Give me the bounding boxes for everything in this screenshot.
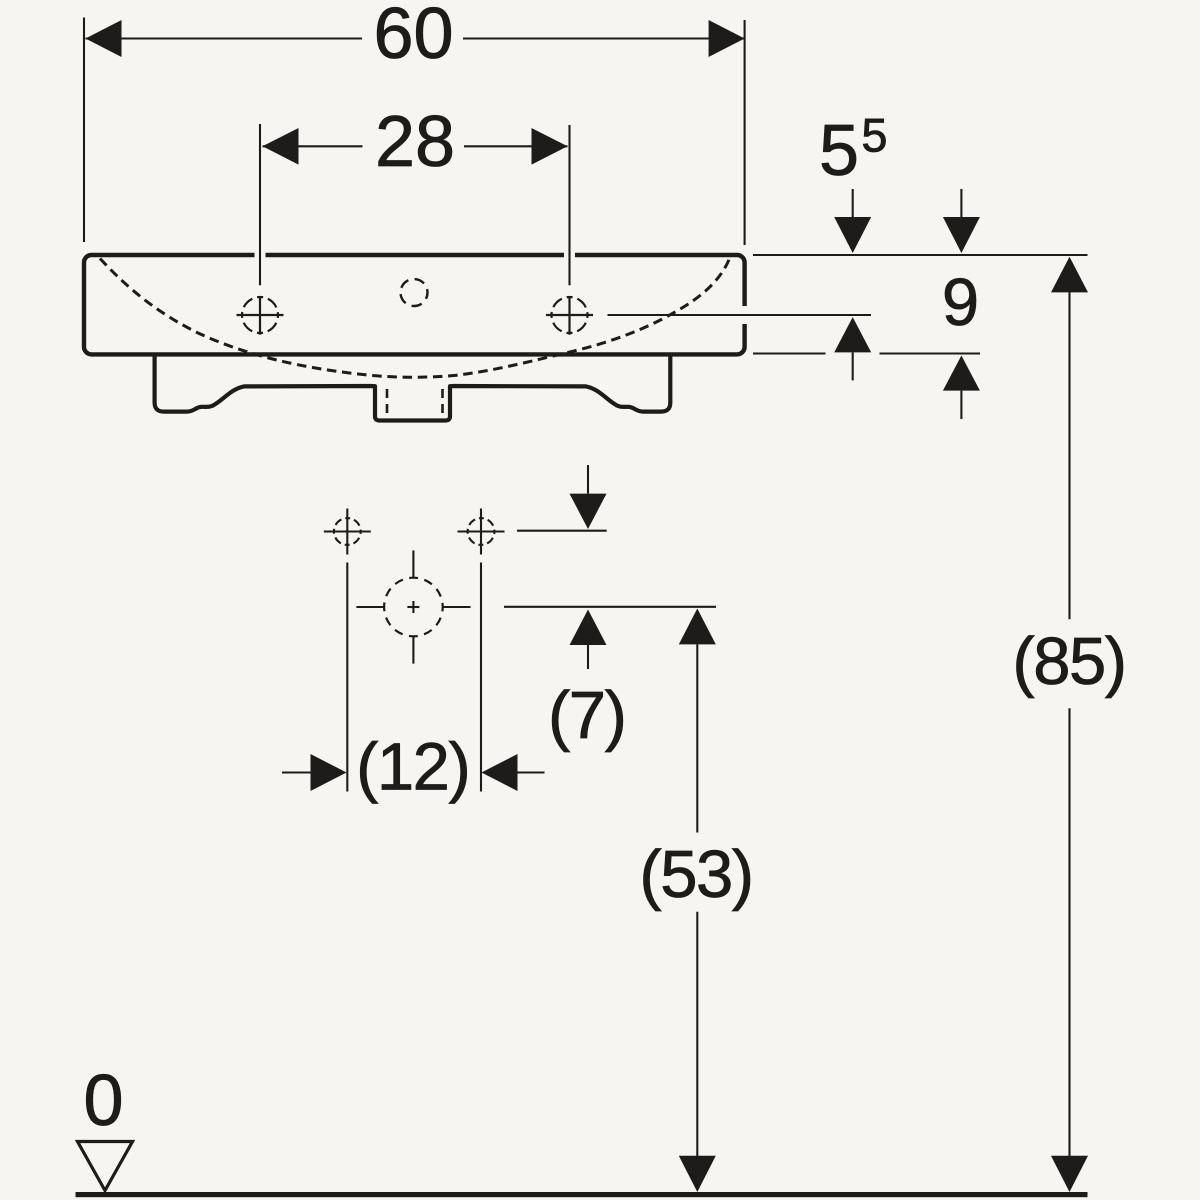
- svg-text:(85): (85): [1012, 624, 1125, 699]
- datum triangle (level 0): [78, 1142, 133, 1191]
- svg-text:(7): (7): [548, 678, 625, 753]
- svg-text:5: 5: [861, 109, 887, 162]
- svg-text:(53): (53): [639, 837, 752, 912]
- fixing hole right: dashed circle: [468, 518, 495, 545]
- dim 5.5: down arrowhead: [834, 217, 871, 253]
- dim 12: left-pointing arrowhead: [482, 754, 518, 791]
- svg-text:(12): (12): [356, 730, 469, 805]
- dim 53: vertical line lower part: [696, 912, 698, 1156]
- drain symbol: dashed circle: [384, 578, 443, 637]
- reference line fixing holes (7): [517, 530, 607, 532]
- fixing hole left: centerlines: [324, 530, 371, 532]
- washbasin body outline: [84, 255, 745, 354]
- reference line tap hole axis (5.5): [608, 314, 872, 316]
- hidden bowl contour (dashed): [100, 259, 730, 378]
- dim 53: vertical line upper part: [696, 644, 698, 832]
- dim 5.5: up arrowhead: [834, 317, 871, 352]
- dim 9: down arrowhead: [943, 217, 980, 253]
- dim 7: upper arrow stub: [587, 465, 589, 494]
- dim 5.5: upper arrow stub: [852, 189, 854, 218]
- floor line: [76, 1192, 1088, 1197]
- dim 85: bottom arrowhead: [1051, 1156, 1088, 1192]
- fixing hole right: centerlines: [458, 530, 505, 532]
- fixing hole left: extension line: [346, 563, 348, 792]
- dim 5.5: lower arrow stub: [852, 352, 854, 380]
- dim 12: right-pointing arrowhead: [311, 754, 347, 791]
- svg-text:5: 5: [819, 111, 859, 191]
- reference line basin bottom (9): [753, 352, 826, 354]
- washbasin pedestal / trap outline: [155, 353, 671, 421]
- drain symbol centerlines: [356, 606, 384, 608]
- tap hole right: centerlines: [546, 314, 593, 316]
- tap hole left: dashed circle: [242, 297, 278, 333]
- dim 12: left arrow stub: [282, 771, 314, 773]
- dimension 28: right extension line: [568, 125, 570, 285]
- dimension 28: left extension line: [259, 124, 261, 285]
- dim 7: up arrowhead: [570, 610, 607, 646]
- dim 85: top arrowhead: [1051, 257, 1088, 293]
- reference line drain axis (7)/(53): [504, 606, 716, 608]
- dim 9: up arrowhead: [943, 356, 980, 391]
- dim 53: top arrowhead: [679, 609, 716, 645]
- fixing hole right: extension line: [480, 563, 482, 792]
- dim 28: right arrowhead: [532, 128, 568, 165]
- tap hole left: centerlines: [237, 314, 284, 316]
- dimension 28: dimension line: [263, 145, 363, 147]
- fixing hole left: dashed circle: [334, 518, 361, 545]
- svg-text:9: 9: [942, 265, 979, 340]
- svg-text:28: 28: [375, 102, 455, 182]
- dim 9: lower arrow stub: [960, 391, 962, 419]
- dim 28: left arrowhead: [263, 128, 299, 165]
- halo gaps where thin lines cross thick outline: [260, 247, 752, 315]
- reference line basin top (5.5 / 9 / 85): [753, 254, 1088, 256]
- svg-text:0: 0: [83, 1061, 123, 1141]
- dim 53: bottom arrowhead: [679, 1156, 716, 1192]
- drain symbol center cross: [407, 606, 419, 608]
- dim 60: left arrowhead: [86, 20, 122, 57]
- dim 85: vertical line upper part: [1068, 292, 1070, 619]
- overflow hole (dashed circle): [401, 279, 428, 306]
- dimension 60: right extension line: [744, 20, 746, 245]
- dim 9: upper arrow stub: [960, 189, 962, 218]
- dim 12: right arrow stub: [518, 771, 545, 773]
- dim 7: down arrowhead: [570, 494, 607, 529]
- drain box hidden edges (dashed): [386, 389, 389, 417]
- dimension 60: left extension line: [83, 18, 85, 243]
- dimension 60: dimension line: [86, 37, 363, 39]
- dim 60: right arrowhead: [709, 20, 745, 57]
- tap hole right: dashed circle: [552, 297, 588, 333]
- svg-text:60: 60: [373, 0, 453, 74]
- dim 85: vertical line lower part: [1068, 708, 1070, 1156]
- dim 7: lower arrow stub: [587, 645, 589, 669]
